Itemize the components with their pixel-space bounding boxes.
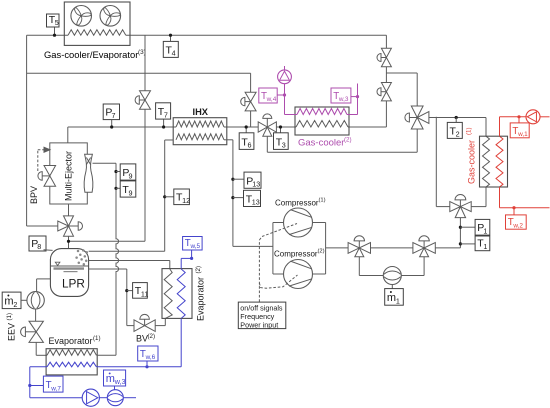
- label Gas-cooler/Evaporator(3): [44, 49, 146, 60]
- svg-text:w,1: w,1: [517, 131, 528, 138]
- evaporator1 CO2 coil: [47, 350, 96, 356]
- gas-cooler1 box: [480, 136, 508, 187]
- svg-text:(2): (2): [195, 266, 202, 274]
- wire suction riser x116: [116, 163, 119, 355]
- svg-text:9: 9: [128, 171, 132, 180]
- evaporator2 water coil: [177, 269, 185, 318]
- label Evaporator(1): [49, 335, 101, 346]
- valve VA three-way: [348, 236, 370, 257]
- sensor P7: [103, 104, 119, 129]
- svg-text:6: 6: [247, 141, 251, 150]
- flow meter m1: [383, 267, 401, 285]
- sensor m2: [2, 292, 27, 309]
- valve BPV: [38, 166, 56, 187]
- svg-text:3: 3: [282, 141, 286, 150]
- svg-text:EEV: EEV: [7, 323, 17, 341]
- gas-cooler1 water coil: [496, 136, 503, 187]
- label Multi-Ejector: [64, 151, 74, 201]
- gas-cooler1 CO2 coil: [483, 136, 490, 187]
- wire V6 to LPR: [67, 236, 70, 248]
- water line evap2 top: [181, 250, 193, 269]
- sensor P9: [114, 164, 135, 180]
- sensor Tw3: [331, 88, 358, 103]
- sensor T12: [163, 189, 190, 205]
- wire main line y127 left: [68, 126, 176, 128]
- svg-text:1: 1: [483, 226, 487, 235]
- ejector: [84, 154, 93, 192]
- sensor P13: [231, 172, 261, 188]
- sensor P8: [29, 236, 53, 251]
- sensor Tw4: [259, 88, 285, 103]
- wire V5 to gas-cooler1: [429, 118, 486, 137]
- wire valve V7 to main line: [250, 111, 252, 127]
- sensor T9: [114, 181, 135, 197]
- svg-text:2: 2: [456, 130, 460, 139]
- wire IHX cold right stub: [224, 140, 273, 247]
- wire IHX cold left stub: [165, 139, 174, 141]
- label Gas-cooler(2): [298, 137, 352, 149]
- wire y73 line: [27, 72, 251, 74]
- flow meter m2: [27, 292, 44, 309]
- label Gas-cooler(1): [466, 127, 477, 184]
- sensor Tw6: [138, 346, 158, 368]
- svg-text:(1): (1): [466, 127, 473, 135]
- control box: [238, 302, 285, 329]
- valve VBIG three-way: [450, 195, 471, 218]
- water line gc1 bottom: [500, 187, 550, 215]
- water line left down: [30, 367, 83, 398]
- svg-text:(1): (1): [319, 198, 326, 204]
- wire discharge: [326, 247, 461, 249]
- evaporator1 water coil: [47, 362, 96, 367]
- sensor Tw1: [510, 123, 529, 138]
- svg-text:2: 2: [13, 300, 17, 309]
- label Compressor(2): [274, 249, 325, 259]
- label BV(2): [136, 333, 155, 344]
- IHX box: [173, 118, 227, 145]
- wire ejector motive drop: [67, 127, 69, 143]
- svg-text:5: 5: [55, 18, 59, 27]
- svg-text:m: m: [387, 292, 396, 304]
- wire x145 vertical upper: [144, 35, 146, 91]
- valve EEV: [21, 321, 44, 342]
- svg-text:(1): (1): [6, 313, 13, 321]
- gas-cooler/evaporator(3) coil: [68, 30, 126, 36]
- sensor Tw7: [28, 376, 63, 392]
- wire V1-V2: [385, 67, 387, 83]
- multi-ejector box: [50, 143, 88, 204]
- sensor P1: [459, 219, 490, 235]
- svg-text:8: 8: [37, 242, 41, 251]
- compressor bus right: [312, 223, 325, 275]
- gas-cooler2 water coil: [297, 109, 347, 115]
- svg-text:Gas-cooler: Gas-cooler: [298, 138, 344, 149]
- sensor T4: [163, 34, 178, 58]
- svg-text:(2): (2): [344, 137, 352, 144]
- svg-text:12: 12: [182, 196, 190, 205]
- wire LPR liquid to BV2: [89, 269, 134, 326]
- svg-text:1: 1: [396, 296, 400, 305]
- valve BV2: [134, 314, 155, 331]
- svg-text:w,6: w,6: [145, 354, 156, 361]
- svg-text:m: m: [4, 296, 13, 308]
- control dashed lines: [259, 224, 297, 302]
- valve V2: [377, 83, 391, 101]
- valve V4 three-way: [258, 114, 276, 136]
- svg-text:BV: BV: [136, 334, 148, 344]
- gas-cooler/evaporator(3) box: [64, 2, 130, 45]
- svg-text:Gas-cooler: Gas-cooler: [467, 140, 477, 184]
- label Evaporator(2): [195, 266, 205, 321]
- compressor bus left: [273, 223, 284, 275]
- wire BV2 to evaporator2: [155, 318, 165, 325]
- svg-text:w,2: w,2: [512, 222, 523, 229]
- wire EEV to evaporator1: [36, 342, 47, 355]
- valve V6 three-way: [58, 216, 83, 236]
- svg-text:Multi-Ejector: Multi-Ejector: [64, 151, 74, 201]
- pump water blue: [82, 389, 99, 406]
- wire pump to meter: [99, 397, 107, 399]
- wire LPR to evaporator2: [89, 261, 170, 270]
- wire x250.6 drop: [250, 73, 252, 92]
- sensor T2: [447, 116, 462, 139]
- gas-cooler(2) CO2 coil: [296, 121, 348, 128]
- svg-text:w,7: w,7: [50, 385, 61, 392]
- label IHX: [193, 107, 209, 117]
- valve V1: [377, 48, 391, 66]
- IHX hot coil: [176, 121, 224, 127]
- valve V7 flash-gas: [241, 92, 256, 111]
- water line gc2 right: [347, 84, 359, 115]
- svg-text:LPR: LPR: [62, 277, 85, 291]
- wire VBIG right port: [471, 187, 486, 207]
- wire LPR vapor to IHX-cold: [89, 140, 165, 251]
- sensor Tw2: [506, 215, 527, 230]
- evaporator2 CO2 coil: [164, 269, 172, 318]
- sensor T3: [274, 125, 289, 149]
- wire m2 to EEV: [35, 309, 37, 321]
- wire ejector suction: [93, 162, 117, 164]
- wire V4 bypass: [267, 129, 417, 152]
- compressor 2: [284, 260, 313, 289]
- svg-text:m: m: [106, 373, 115, 385]
- wire main line y127 right: [276, 126, 296, 128]
- wire gc2 exit to V2: [348, 101, 386, 127]
- svg-text:Compressor: Compressor: [275, 199, 319, 208]
- svg-text:9: 9: [128, 188, 132, 197]
- wire VBIG left port: [436, 117, 450, 207]
- svg-text:7: 7: [111, 111, 115, 120]
- svg-text:w,5: w,5: [189, 243, 200, 250]
- sensor T6: [239, 125, 254, 149]
- gas-cooler2 box: [295, 107, 349, 135]
- evaporator1 box: [46, 349, 97, 375]
- svg-text:7: 7: [164, 110, 168, 119]
- svg-text:Evaporator: Evaporator: [196, 277, 206, 321]
- svg-text:w,3: w,3: [338, 96, 349, 103]
- svg-text:IHX: IHX: [193, 107, 209, 117]
- svg-text:(1): (1): [93, 335, 101, 342]
- water line gc1 supply: [540, 116, 550, 118]
- compressor 1: [284, 208, 313, 237]
- water line evap2 riser: [180, 318, 182, 366]
- pump water purple: [278, 70, 292, 84]
- svg-text:(2): (2): [318, 249, 325, 255]
- water line purple stub: [284, 66, 286, 70]
- fans of gas-cooler/evaporator(3): [71, 6, 121, 27]
- sensor Tw5: [183, 237, 203, 251]
- svg-text:Gas-cooler/Evaporator: Gas-cooler/Evaporator: [44, 49, 138, 60]
- wire V5 feed: [386, 73, 417, 106]
- wire evaporator1 outlet: [96, 354, 116, 356]
- svg-text:BPV: BPV: [29, 186, 39, 204]
- svg-text:w,4: w,4: [266, 96, 277, 103]
- IHX cold coil: [176, 134, 224, 140]
- flow meter mw3: [107, 390, 123, 406]
- valve V3 on x145: [135, 91, 150, 110]
- label LPR: [62, 277, 85, 291]
- svg-text:Compressor: Compressor: [274, 250, 318, 259]
- valve VB three-way: [413, 236, 435, 257]
- svg-text:1: 1: [483, 242, 487, 251]
- svg-text:11: 11: [141, 289, 148, 298]
- svg-text:Evaporator: Evaporator: [49, 336, 93, 346]
- BPV control dashed: [38, 147, 50, 171]
- valve V5 three-way: [405, 106, 429, 129]
- svg-text:w,3: w,3: [114, 377, 126, 386]
- label EEV(1): [6, 313, 17, 341]
- wire V1 drop: [385, 35, 387, 48]
- LPR internals: [50, 249, 88, 271]
- svg-text:13: 13: [252, 198, 260, 207]
- wire ejector outlet: [68, 204, 70, 216]
- svg-text:(2): (2): [148, 333, 156, 340]
- sensor T5: [47, 14, 60, 37]
- wire riser x460: [459, 218, 461, 248]
- sensor mw3: [104, 370, 126, 390]
- wire main line y127 mid: [224, 126, 258, 128]
- sensor T1: [459, 236, 490, 251]
- wire top header y35: [27, 34, 387, 36]
- water line outlet: [123, 397, 136, 399]
- svg-text:Power input: Power input: [240, 320, 278, 329]
- LPR vessel: [50, 249, 88, 297]
- pump water red: [526, 110, 540, 124]
- wire left drop x26.6: [27, 35, 58, 226]
- water line gc2 left: [283, 84, 297, 115]
- water line evaporators: [30, 366, 181, 368]
- evaporator2 box: [162, 269, 192, 319]
- label Compressor(1): [275, 198, 326, 208]
- water line gc1 top: [500, 115, 527, 136]
- wire x145 vertical lower: [69, 109, 145, 241]
- svg-text:13: 13: [252, 180, 260, 189]
- wire LPR liquid out: [37, 279, 51, 292]
- label BPV: [29, 186, 39, 204]
- sensor T7: [156, 103, 171, 129]
- wire m1 loop: [359, 257, 424, 276]
- svg-text:4: 4: [172, 49, 176, 58]
- sensor T13: [231, 190, 260, 206]
- sensor T11: [125, 283, 148, 299]
- sensor m1: [385, 285, 404, 306]
